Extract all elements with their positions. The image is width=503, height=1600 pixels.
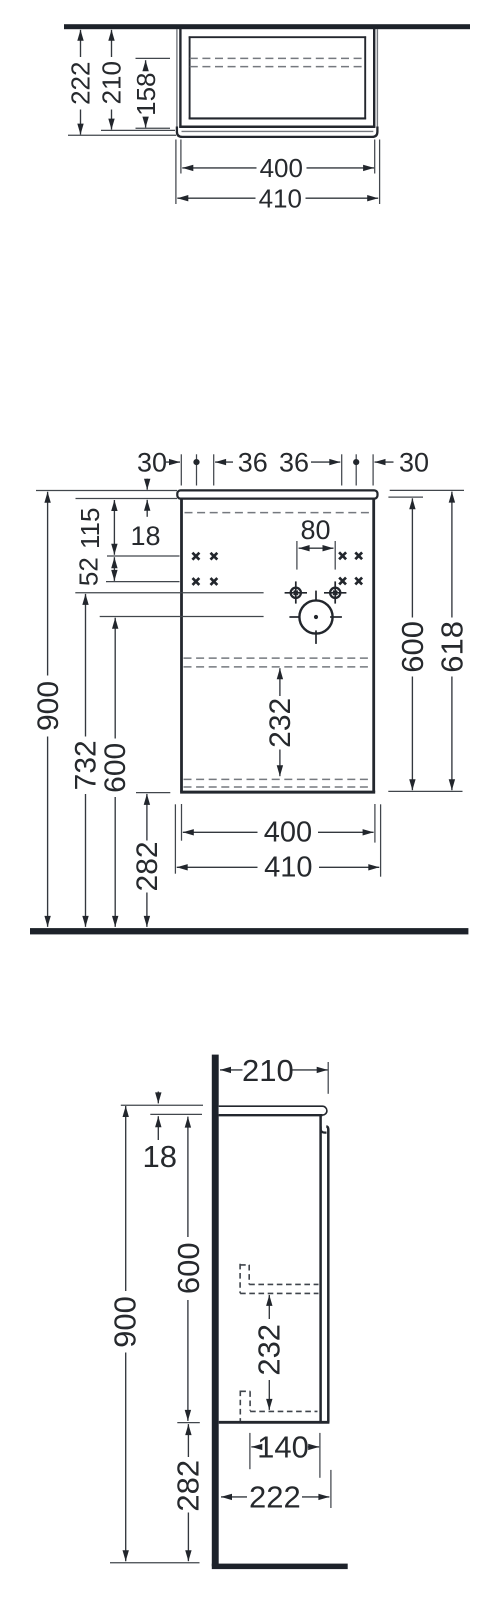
ext line bottom left (282)	[136, 792, 170, 794]
dim 400 extension tick right	[374, 140, 376, 174]
svg-text:18: 18	[130, 521, 160, 551]
floor (side, thick)	[212, 1564, 348, 1570]
dim 36 left arrow and text	[215, 461, 233, 463]
siphon cutout upper dashed	[240, 1264, 318, 1294]
ext line body bottom left (side 600/282)	[177, 1422, 200, 1424]
ext line hole row2 (52)	[106, 581, 180, 583]
dim 232 (front)	[279, 668, 281, 696]
svg-text:115: 115	[75, 508, 105, 549]
dim 222 line	[80, 30, 82, 57]
dim 400 line (plan)	[182, 167, 256, 169]
dim 410 extension tick left	[175, 140, 177, 205]
svg-text:410: 410	[264, 852, 312, 884]
svg-text:210: 210	[96, 61, 126, 104]
dim 30 right arrow and text	[375, 461, 394, 463]
top panel bottom line (side, thick)	[219, 1114, 323, 1116]
top panel (side)	[219, 1106, 327, 1115]
ext line panel top left (side 900/18)	[121, 1104, 203, 1106]
dim 400 line (front)	[183, 831, 258, 833]
top rail dashed (front)	[185, 512, 372, 514]
siphon cutout lower dashed	[240, 1391, 317, 1422]
dim 140 ext ticks (side)	[249, 1433, 251, 1469]
ext line body left top	[180, 454, 182, 485]
ext line hole col right-inner	[341, 454, 343, 485]
faucet crosshair right	[324, 581, 346, 603]
dim 115 line	[113, 500, 115, 555]
door handle hook (side)	[321, 1127, 327, 1133]
svg-text:52: 52	[74, 557, 104, 586]
drain circle	[289, 591, 342, 644]
hole col stem left-outer with dot	[196, 454, 198, 485]
dim 410 line (plan)	[177, 197, 255, 199]
carcass outer left	[179, 29, 181, 128]
body right edge (front)	[372, 499, 375, 792]
dim 282 (front)	[146, 794, 148, 841]
carcass outer front line	[179, 126, 375, 129]
dim 52 line	[113, 557, 115, 581]
hole col stem right-outer with dot	[355, 454, 357, 485]
dim 400 extension tick left	[180, 140, 182, 174]
wall (side, thick)	[212, 1055, 219, 1567]
dim 210 line	[111, 30, 113, 57]
svg-text:618: 618	[434, 621, 469, 673]
shelf dashed lower	[184, 666, 373, 668]
dim 900 (front)	[47, 492, 49, 676]
dim 400 ext ticks (front)	[181, 804, 183, 841]
dim 600 (side)	[187, 1117, 189, 1237]
svg-text:36: 36	[238, 447, 268, 477]
ext line panel top right (618)	[390, 489, 464, 491]
carcass inner back line	[189, 36, 366, 38]
dim 410 ext ticks (front)	[174, 804, 176, 873]
dim 732 (front)	[85, 594, 87, 737]
drilling x-marks left group	[192, 553, 217, 585]
ext line body right top	[372, 454, 374, 485]
door front edge (side)	[326, 1126, 328, 1422]
dim 222 ext line right (side)	[330, 1470, 332, 1508]
dim 282 (side)	[187, 1424, 189, 1457]
bottom dashed lower	[184, 786, 373, 788]
ext line panel bottom left (side 18/600)	[150, 1113, 202, 1115]
svg-text:80: 80	[300, 515, 330, 545]
dim 600 right (front)	[411, 498, 413, 617]
svg-text:232: 232	[264, 698, 297, 748]
ext line panel bottom right (600)	[388, 496, 423, 498]
carcass inner front line	[189, 117, 366, 119]
carcass inner right	[364, 36, 366, 119]
dim 410 extension tick right	[379, 140, 381, 205]
svg-text:282: 282	[171, 1460, 206, 1512]
svg-text:222: 222	[249, 1480, 301, 1515]
dim 158 extension bottom	[136, 127, 171, 129]
hidden rail dashed row 1	[190, 57, 365, 59]
svg-text:210: 210	[242, 1053, 294, 1088]
dim 222 (side)	[221, 1496, 247, 1498]
dim 618 (front)	[451, 492, 453, 618]
svg-text:140: 140	[257, 1430, 309, 1465]
body bottom (side)	[219, 1421, 330, 1424]
dim 18 (front, panel thickness)	[146, 479, 148, 490]
svg-text:400: 400	[260, 153, 303, 183]
svg-text:282: 282	[131, 841, 164, 891]
body front edge (side)	[319, 1115, 322, 1422]
svg-text:410: 410	[259, 183, 302, 213]
floor extension line (side)	[110, 1562, 200, 1564]
dim 210 ext line right	[327, 1062, 329, 1094]
dim 140 (side)	[251, 1446, 258, 1448]
dim 158 extension top	[136, 57, 171, 59]
dim 18 (side)	[157, 1092, 159, 1104]
ext line faucet height (732)	[75, 592, 263, 594]
svg-text:232: 232	[252, 1324, 287, 1376]
dim 222 extension line (bottom)	[68, 134, 176, 136]
ext line hole row1 (115/52)	[107, 555, 180, 557]
svg-text:158: 158	[131, 73, 161, 116]
svg-text:36: 36	[279, 447, 309, 477]
dim 210 extension line (bottom)	[101, 129, 175, 131]
dim 210 (side)	[220, 1069, 243, 1071]
dim 80 (faucet holes)	[296, 541, 298, 570]
svg-text:600: 600	[171, 1242, 206, 1294]
ext line hole col left-inner	[213, 454, 215, 485]
dim 410 line (front)	[177, 866, 258, 868]
svg-text:222: 222	[65, 62, 95, 105]
ext line panel top to left (900/18)	[36, 490, 177, 492]
floor line (front, thick)	[30, 928, 468, 934]
svg-text:600: 600	[395, 621, 430, 673]
svg-text:900: 900	[108, 1296, 143, 1348]
wall (plan, thick)	[64, 24, 470, 29]
dim 158 line	[145, 60, 147, 68]
svg-text:30: 30	[399, 447, 429, 477]
dim 600 left (front)	[114, 618, 116, 739]
svg-text:900: 900	[32, 681, 65, 731]
shelf dashed upper	[184, 657, 373, 659]
bottom dashed upper	[184, 778, 373, 780]
ext line body bottom right (600/618)	[388, 790, 462, 792]
door side edge left (gray)	[176, 29, 178, 129]
door front edge with rounded corners	[177, 127, 378, 137]
drilling x-marks right group	[339, 552, 362, 584]
body bottom edge (front)	[180, 791, 375, 794]
dim 232 (side)	[268, 1295, 270, 1319]
ext line drain height (600)	[100, 616, 264, 618]
hidden rail dashed row 2	[190, 66, 365, 68]
body left edge (front)	[180, 499, 183, 792]
svg-text:732: 732	[69, 740, 102, 790]
top panel strip (front)	[177, 490, 377, 498]
faucet crosshair left	[285, 581, 307, 603]
carcass inner left	[189, 36, 191, 119]
door back edge (gray)	[182, 130, 374, 132]
svg-text:30: 30	[137, 447, 167, 477]
ext line panel bottom to left (18/115)	[76, 498, 178, 500]
svg-text:18: 18	[143, 1139, 177, 1174]
door side edge right (gray)	[376, 29, 378, 129]
svg-text:400: 400	[264, 817, 312, 849]
dim 900 (side)	[125, 1106, 127, 1291]
carcass outer right	[373, 29, 375, 128]
svg-text:600: 600	[99, 743, 132, 793]
